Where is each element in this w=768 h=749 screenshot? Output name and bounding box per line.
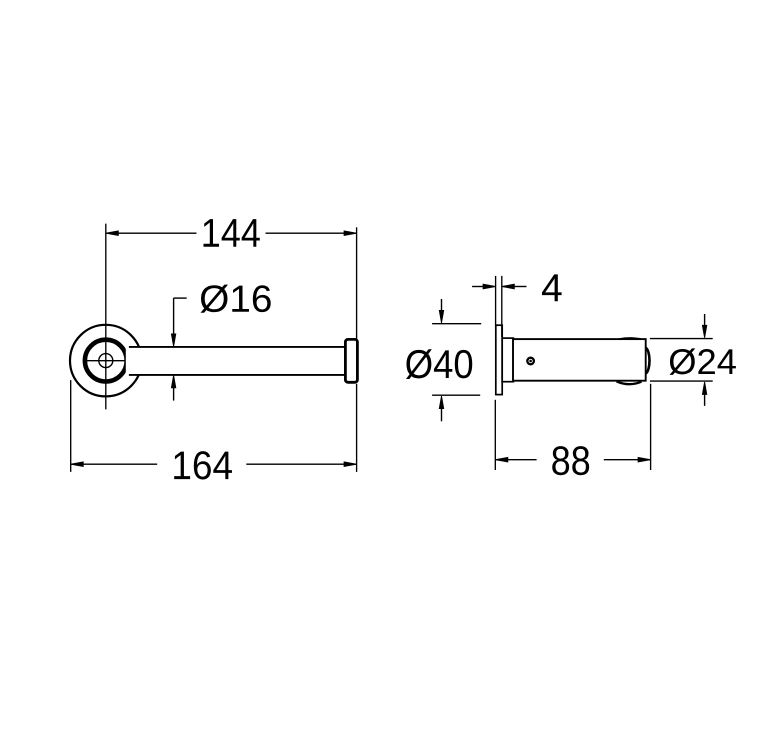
88 left extension line [494,400,496,470]
4 right arrow pointing left [502,284,515,289]
screw hole circle at flange center [99,354,113,368]
Ø40 bottom arrow pointing up [439,396,443,409]
Ø24 bottom extension line [650,380,713,382]
vertical centerline of flange (also 144 left extension line) [105,224,107,410]
horizontal centerline of flange [85,360,126,362]
roll bar top edge [129,346,345,348]
164 right extension line (below end cap) [356,384,358,472]
88 right extension line [650,384,652,470]
Ø24 bottom arrow pointing up [702,382,706,395]
Ø40 top extension line [432,323,481,325]
164 dimension line left segment [71,463,158,465]
mounting collar [502,338,513,382]
roll bar white body (masks ring/circle behind) [126,347,350,375]
144 right arrow [344,231,357,236]
set screw on tube [527,358,534,365]
label 4 [542,274,562,301]
label 164 [174,451,232,479]
4 dim right extension line [501,276,503,337]
roll bar bottom edge [129,374,345,376]
4 dim left extension line [495,276,497,325]
88 left arrow [495,457,508,462]
Ø24 top extension line [650,338,713,340]
Ø16 arrow pointing up to bar bottom [171,375,175,388]
Ø40 bottom extension line [432,394,480,396]
144 dimension line left segment [106,232,197,234]
flange inner thick ring [85,340,127,382]
144 right extension line upper part (above end cap) [356,227,358,338]
label Ø24 [670,348,736,375]
flange outer circle (Ø40 wall flange) [70,325,142,397]
164 left arrow [71,462,84,467]
Ø16 leader top tick [174,297,187,299]
Ø24 top arrow pointing down [702,325,706,338]
164 dimension line right segment [246,463,356,465]
88 dimension line right segment [604,459,651,461]
label 88 [552,446,589,475]
144 dimension line right segment [266,232,357,234]
label Ø40 [406,349,472,379]
164 left extension line [70,380,72,472]
4 dim line right segment [514,286,527,288]
Ø24 bottom leader line [704,394,706,406]
end cap top arc [619,338,641,339]
Ø24 top leader line [704,314,706,326]
wall plate (4 mm thick) [496,325,502,394]
Ø16 arrow pointing down to bar top [171,334,175,347]
label Ø16 [201,285,271,313]
Ø40 top arrow pointing down [439,310,443,323]
164 right arrow [344,462,357,467]
end cap of roll bar [345,339,357,382]
88 right arrow [638,457,651,462]
Ø40 bottom leader line [441,408,443,421]
Ø16 leader vertical line above bar [173,298,175,334]
end cap bottom arc [617,381,642,384]
set screw center dot [529,360,532,363]
Ø40 top leader line [441,299,443,311]
144 left arrow [106,231,119,236]
Ø16 leader vertical line below bar [173,387,175,400]
end dome arc (right bulge) [646,348,650,374]
label 144 [203,219,259,247]
4 dim line left segment [472,286,484,288]
88 dimension line left segment [495,459,536,461]
4 left arrow pointing right [483,284,496,289]
tube body (Ø24) [513,339,646,381]
